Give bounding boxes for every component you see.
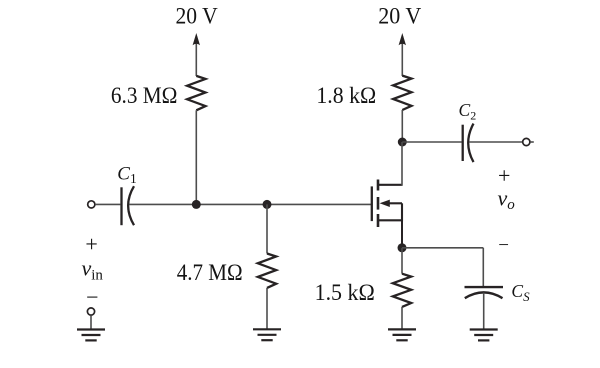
svg-text:6.3 MΩ: 6.3 MΩ	[111, 83, 178, 109]
ground (4.7 MΩ)	[253, 329, 281, 340]
svg-text:4.7 MΩ: 4.7 MΩ	[177, 260, 243, 286]
svg-text:20 V: 20 V	[176, 3, 218, 29]
node: gate/R2 (4.7 MΩ) junction	[263, 200, 272, 209]
channel segment (body)	[377, 197, 380, 210]
drain stub	[378, 184, 402, 186]
channel segment (drain side)	[377, 180, 380, 191]
capacitor C1	[122, 186, 135, 225]
terminal (vin bottom, open circle)	[87, 308, 94, 315]
wire source node to 1.5 kΩ	[401, 248, 403, 274]
svg-text:1.5 kΩ: 1.5 kΩ	[315, 280, 375, 306]
body arrow line	[388, 202, 402, 204]
channel segment (source side)	[377, 214, 380, 227]
svg-text:+: +	[498, 163, 510, 188]
wire junction to 4.7 MΩ	[266, 204, 268, 253]
wire drain node to C2	[402, 141, 461, 143]
transistor Q1 (n-channel MOSFET)	[372, 142, 403, 248]
svg-text:C1: C1	[117, 164, 136, 186]
svg-text:CS: CS	[511, 281, 530, 304]
wire CS top	[482, 248, 484, 287]
source stub	[378, 219, 403, 221]
supply arrow (left 20 V rail)	[193, 33, 200, 76]
svg-text:20 V: 20 V	[378, 4, 421, 30]
wire RD bottom to drain node	[401, 110, 403, 142]
wire source node to CS	[402, 247, 483, 249]
svg-text:C2: C2	[459, 100, 477, 123]
svg-text:−: −	[86, 285, 98, 310]
wire C2 to output terminal	[469, 141, 523, 143]
svg-text:vin: vin	[82, 256, 104, 284]
capacitor CS	[465, 287, 504, 298]
wire drain lead	[401, 142, 403, 186]
svg-text:−: −	[498, 235, 509, 256]
ground (RS)	[388, 329, 416, 340]
gate bar	[371, 186, 373, 221]
capacitor C2	[463, 124, 474, 163]
node: drain junction	[398, 138, 407, 147]
wire 4.7 MΩ to ground	[266, 288, 268, 329]
resistor 1.5 kΩ (RS)	[393, 274, 411, 307]
input terminal (open circle, vin +)	[88, 201, 95, 208]
wire vin terminal to ground	[90, 315, 92, 329]
source lead down	[401, 220, 403, 248]
ground (CS)	[470, 330, 498, 341]
resistor 6.3 MΩ (R1)	[187, 76, 205, 110]
resistor 4.7 MΩ	[258, 254, 276, 288]
wire stub right of output terminal	[530, 141, 534, 143]
wire R1 bottom to gate node	[195, 110, 197, 204]
node: source junction	[398, 243, 407, 252]
svg-text:1.8 kΩ: 1.8 kΩ	[316, 83, 376, 109]
resistor 1.8 kΩ (RD)	[393, 76, 411, 110]
svg-text:+: +	[85, 232, 97, 257]
wire gate (C1 to MOSFET gate)	[129, 203, 372, 205]
wire input terminal to C1	[95, 203, 120, 205]
node: gate/R1 junction	[192, 200, 201, 209]
supply arrow (right 20 V rail)	[399, 33, 406, 76]
wire CS to ground	[483, 293, 485, 330]
output terminal (open circle, vo)	[523, 138, 530, 145]
ground (vin)	[77, 330, 105, 341]
svg-text:vo: vo	[498, 186, 516, 213]
body arrowhead	[380, 200, 390, 207]
wire RS to ground	[401, 307, 403, 330]
